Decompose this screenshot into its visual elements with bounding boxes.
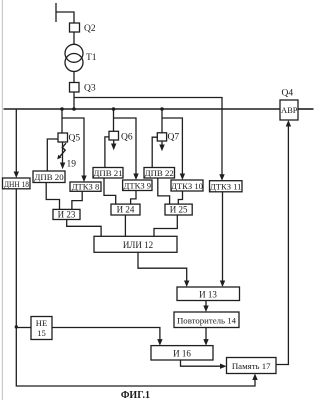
svg-text:ДТКЗ 11: ДТКЗ 11 [210, 182, 242, 192]
wire Q7-DPV22 [152, 137, 157, 167]
arrowhead into DTKZ9 [133, 174, 138, 181]
block DNN 18 [3, 178, 31, 189]
gate NE 15 [31, 317, 52, 340]
svg-text:19: 19 [67, 160, 77, 170]
svg-text:Q5: Q5 [69, 134, 81, 144]
wire NE15-I16 [52, 328, 160, 342]
arrowhead repeater-I16 [203, 339, 208, 346]
wire Q6 feeder [113, 140, 115, 146]
block DTKZ 11 [210, 181, 243, 192]
svg-text:АВР: АВР [281, 105, 298, 115]
wire bus-Q5 [61, 109, 63, 133]
svg-text:ДТКЗ 8: ДТКЗ 8 [72, 182, 100, 192]
wire DPV22-I25 [158, 178, 170, 204]
wire tap to DTKZ10 [162, 118, 182, 177]
wire branch to DTKZ11 [74, 98, 222, 178]
wire T1-Q3 [73, 72, 75, 83]
short-circuit zigzag 19 [60, 143, 66, 157]
breaker Q6 [109, 131, 119, 140]
gate I13 [177, 287, 240, 301]
wire DPV21-I24 [104, 178, 116, 204]
arrowhead into DNN18 [14, 172, 19, 179]
arrowhead I13-repeater [203, 306, 208, 313]
gate I16 [151, 346, 213, 360]
block AVR [280, 100, 298, 120]
svg-text:ДТКЗ 9: ДТКЗ 9 [123, 181, 151, 191]
wire Q5 feeder [62, 142, 64, 164]
wire bus-Q7 [161, 109, 163, 133]
block DTKZ 9 [123, 180, 152, 191]
wire I24-OR12 [124, 215, 126, 236]
wire repeater-I16 [205, 328, 207, 342]
gate OR ILI 12 [94, 236, 177, 252]
junction bus-Q3 [72, 107, 76, 111]
breaker Q7 [157, 133, 166, 141]
wire I13-repeater [205, 301, 207, 309]
block repeater Povtoritel 14 [174, 312, 239, 328]
svg-text:И 25: И 25 [170, 205, 188, 215]
svg-text:НЕ: НЕ [36, 318, 47, 328]
arrowhead Q7 feeder [159, 145, 164, 152]
svg-text:ДТКЗ 10: ДТКЗ 10 [171, 181, 203, 191]
svg-text:ДПВ 20: ДПВ 20 [34, 172, 64, 182]
wire DTKZ9-I24 [131, 191, 136, 205]
svg-text:Повторитель 14: Повторитель 14 [177, 316, 237, 326]
arrowhead NE15-I16 [157, 339, 162, 346]
svg-text:Q4: Q4 [282, 89, 294, 99]
wire I16-memory [181, 360, 223, 366]
arrowhead short-circuit 19 [57, 155, 61, 160]
breaker Q2 [70, 23, 80, 32]
svg-text:Q6: Q6 [121, 133, 133, 143]
arrowhead Q5 feeder [60, 163, 65, 170]
wire tap to DTKZ9 [114, 118, 137, 177]
block DPV 22 [144, 168, 175, 179]
junction bus-Q5 [60, 107, 64, 111]
block DPV 21 [93, 168, 123, 179]
svg-text:Q3: Q3 [84, 84, 96, 94]
junction DNN18-NE15 [15, 325, 18, 328]
transformer T1 [65, 44, 83, 62]
arrowhead I16-memory [220, 364, 227, 369]
junction bus-Q7 [160, 107, 164, 111]
wire DTKZ8-I23 [72, 191, 82, 209]
scan page-edge artifact [1, 0, 3, 400]
breaker Q3 [70, 83, 80, 93]
wire DTKZ11-I13 [222, 192, 224, 283]
wire into NE15 [16, 327, 31, 329]
arrowhead bottom-memory [252, 374, 257, 381]
wire DTKZ10-I25 [178, 191, 182, 204]
svg-text:ДПВ 21: ДПВ 21 [93, 168, 122, 178]
gate I25 [165, 204, 192, 215]
wire bus-Q6 [113, 109, 115, 131]
supply stub bus [56, 3, 74, 23]
svg-text:T1: T1 [86, 53, 97, 63]
wire Q2-T1 [73, 32, 75, 45]
svg-text:ДНН 18: ДНН 18 [4, 179, 29, 189]
wire bus-DNN18 [15, 109, 17, 175]
junction bus-Q6 [112, 107, 116, 111]
wire OR12-I13 [138, 252, 187, 283]
svg-text:ДПВ 22: ДПВ 22 [145, 168, 174, 178]
arrowhead memory-AVR [286, 120, 291, 127]
svg-text:И 13: И 13 [199, 290, 217, 300]
wire Q5-DPV20 [47, 139, 58, 171]
arrowhead Q6 feeder [111, 144, 116, 151]
gate I24 [111, 204, 140, 215]
wire I25-OR12 [154, 215, 177, 236]
svg-text:И 16: И 16 [173, 349, 191, 359]
block DTKZ 8 [70, 182, 101, 191]
block DPV 20 [33, 171, 65, 183]
svg-text:15: 15 [37, 328, 46, 338]
wire Q3-bus [73, 92, 75, 109]
wire Q7 feeder [161, 141, 163, 147]
breaker Q5 [58, 133, 68, 142]
block memory Pamyat 17 [227, 358, 277, 374]
wire memory-AVR [276, 124, 288, 365]
svg-text:ИЛИ 12: ИЛИ 12 [123, 240, 153, 250]
wire DNN18-NE15 and bottom run [16, 189, 255, 386]
bus left section [4, 108, 281, 110]
svg-text:Q7: Q7 [168, 133, 180, 143]
arrowhead into DTKZ10 [180, 174, 185, 181]
svg-text:И 24: И 24 [117, 205, 135, 215]
arrowhead DTKZ11-I13 [220, 281, 225, 288]
block DTKZ 10 [171, 180, 203, 191]
wire DPV20-I23 [46, 183, 59, 210]
arrowhead OR12-I13 [184, 281, 189, 288]
arrowhead into DTKZ8 [81, 176, 86, 183]
bus right section [298, 108, 314, 110]
svg-text:Q2: Q2 [84, 24, 96, 34]
arrowhead into DTKZ11 [219, 174, 224, 181]
svg-text:И 23: И 23 [58, 210, 76, 220]
svg-text:ФИГ.1: ФИГ.1 [121, 390, 150, 400]
wire Q6-DPV21 [105, 137, 109, 168]
svg-text:Память 17: Память 17 [232, 361, 271, 371]
gate I23 [53, 209, 80, 219]
wire I23-OR12 [67, 220, 101, 237]
wire tap to DTKZ8 [62, 118, 84, 179]
